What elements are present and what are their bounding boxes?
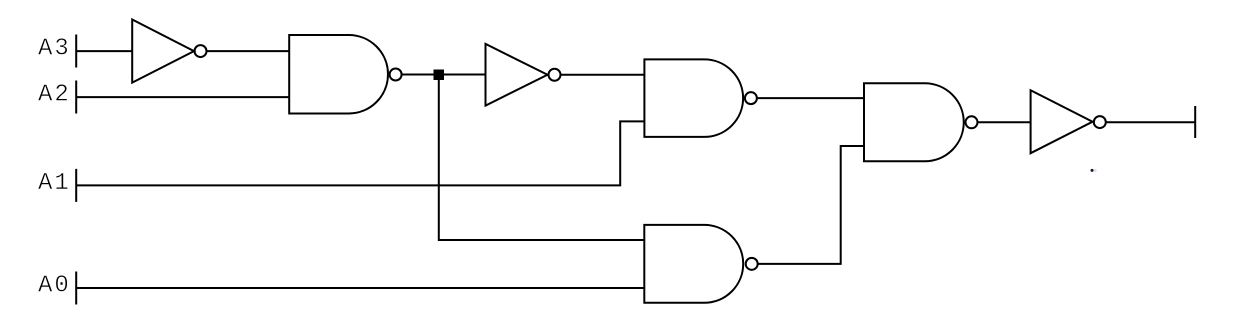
NAND gate U2 (inputs /A3, A2)	[289, 35, 388, 114]
inverter U1 (NOT gate on A3)	[132, 20, 206, 83]
input pin A2 terminal	[75, 81, 77, 114]
inverter U7 (output NOT gate)	[1031, 90, 1106, 153]
bubble of U5	[746, 258, 758, 270]
wire U4 output to NAND U6 upper input	[757, 97, 865, 99]
input pin A0 terminal	[75, 272, 77, 305]
wire node N1 down and right to NAND U5 upper input	[439, 75, 645, 240]
wire U2 output to inverter U3 (through node N1)	[402, 74, 486, 76]
wire A2 to NAND U2 lower input	[76, 96, 290, 98]
svg-text:A1: A1	[38, 170, 71, 197]
svg-text:A2: A2	[38, 82, 71, 109]
node N1 junction dot (square)	[434, 70, 445, 81]
input pin A1 terminal	[75, 169, 77, 202]
bubble of U2	[390, 69, 402, 81]
stray mark (small dot artifact)	[1091, 169, 1094, 172]
input pin A3 terminal	[75, 35, 77, 68]
wire A0 to NAND U5 lower input	[76, 287, 645, 289]
NAND gate U4 (inputs /U2, A1)	[644, 59, 743, 136]
NAND gate U6 (inputs U4, U5)	[864, 83, 964, 161]
wire U5 output to NAND U6 lower input (right, up, right)	[758, 146, 865, 264]
output pin terminal	[1194, 106, 1196, 138]
svg-text:A0: A0	[38, 273, 71, 300]
wire A1 to NAND U4 lower input (right, up, right)	[76, 121, 645, 185]
bubble of U4	[745, 92, 757, 104]
wire A3 to inverter U1	[76, 50, 133, 52]
bubble of U6	[966, 116, 978, 128]
wire U7 output to output terminal	[1106, 121, 1195, 123]
NAND gate U5 (inputs node N1, A0)	[644, 225, 743, 303]
wire U3 output to NAND U4 upper input	[561, 74, 646, 76]
wire U6 output to inverter U7	[978, 121, 1032, 123]
wire U1 output to NAND U2 upper input	[207, 50, 291, 52]
inverter U3 (NOT gate after U2)	[486, 44, 561, 106]
svg-text:A3: A3	[38, 36, 71, 63]
